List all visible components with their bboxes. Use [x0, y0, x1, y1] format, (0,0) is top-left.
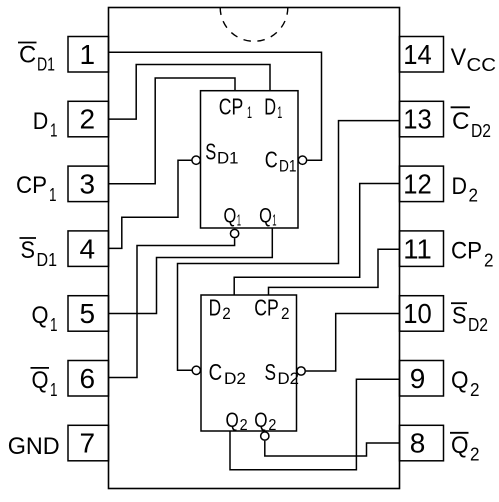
FF1 label Q1 (output) — [259, 204, 276, 229]
pin 5 label Q1 — [32, 302, 58, 335]
svg-text:3: 3 — [80, 169, 96, 200]
svg-text:1: 1 — [50, 315, 58, 335]
svg-text:C: C — [452, 108, 470, 135]
svg-text:1: 1 — [50, 121, 58, 141]
svg-text:Q: Q — [32, 302, 49, 329]
svg-text:1: 1 — [277, 104, 282, 122]
svg-text:2: 2 — [80, 104, 96, 135]
inversion bubble CD1 (FF1 right edge) — [298, 156, 306, 164]
wire pin 2 D1 to FF1 D input — [109, 65, 271, 120]
svg-text:CP: CP — [451, 238, 482, 265]
svg-text:D: D — [264, 94, 276, 120]
pin 1 box — [68, 37, 109, 73]
pin 8 label /Q2 — [450, 432, 480, 465]
FF2 label Q2 (inverted output) — [254, 409, 276, 434]
svg-text:1: 1 — [272, 213, 276, 230]
svg-text:S: S — [21, 237, 36, 264]
svg-text:C: C — [19, 42, 36, 69]
svg-text:8: 8 — [410, 428, 426, 459]
pin 6 label /Q1 — [31, 367, 58, 400]
FF1 label SD1 (set input) — [205, 138, 238, 167]
wire pin 3 CP1 to FF1 CP input — [109, 78, 236, 184]
svg-text:2: 2 — [268, 417, 276, 434]
svg-text:1: 1 — [49, 185, 57, 205]
svg-text:1: 1 — [80, 39, 96, 70]
svg-text:1: 1 — [247, 104, 252, 122]
wire pin 1 /CD1 to FF1 CD1 input — [109, 52, 322, 160]
FF2 label D2 (data input) — [209, 295, 231, 323]
svg-text:2: 2 — [470, 380, 480, 400]
inversion bubble Q2-bar (FF2 bottom edge) — [261, 432, 269, 440]
FF1 label Q1 (inverted output) — [224, 204, 242, 229]
svg-text:D2: D2 — [224, 370, 246, 388]
svg-text:D2: D2 — [278, 370, 300, 388]
svg-text:2: 2 — [470, 445, 480, 465]
pin 6 box — [68, 361, 109, 397]
svg-text:CP: CP — [254, 295, 278, 321]
pin 12 box — [400, 166, 444, 202]
svg-text:2: 2 — [222, 305, 231, 323]
pin 4 label /SD1 — [20, 237, 58, 270]
IC body outline — [109, 8, 400, 489]
svg-text:2: 2 — [281, 305, 290, 323]
pin 8 box — [400, 425, 444, 461]
svg-text:Q: Q — [226, 409, 239, 432]
svg-text:D1: D1 — [37, 54, 55, 74]
inversion bubble SD2 (FF2 right edge) — [297, 367, 305, 375]
wire pin 10 /SD2 to FF2 SD2 input — [306, 314, 400, 372]
pin 4 box — [68, 231, 109, 267]
pin 13 label /CD2 — [451, 107, 491, 141]
flip-flop FF2 body — [201, 295, 297, 431]
wire pin 5 Q1 from FF1 Q output — [109, 228, 273, 314]
pin 10 label /SD2 — [451, 302, 488, 335]
svg-text:C: C — [209, 359, 223, 385]
pin 9 box — [400, 361, 444, 397]
inversion bubble SD1 (FF1 left edge) — [192, 156, 200, 164]
svg-text:GND: GND — [8, 433, 60, 460]
svg-text:9: 9 — [410, 363, 426, 394]
svg-text:5: 5 — [80, 298, 96, 329]
wire pin 8 /Q2 from FF2 inverted output bubble — [265, 441, 400, 456]
svg-text:S: S — [205, 138, 216, 164]
svg-text:D1: D1 — [37, 250, 58, 270]
svg-text:V: V — [451, 44, 467, 71]
svg-text:1: 1 — [50, 380, 58, 400]
FF2 label Q2 (output) — [226, 409, 248, 434]
FF1 label D1 (data input) — [264, 94, 282, 123]
svg-text:Q: Q — [259, 204, 272, 227]
svg-text:S: S — [452, 302, 467, 329]
FF2 label CD2 (clear input) — [209, 359, 246, 388]
svg-text:CC: CC — [467, 55, 497, 75]
svg-text:Q: Q — [451, 367, 469, 394]
svg-text:10: 10 — [403, 298, 432, 329]
svg-text:CP: CP — [219, 94, 244, 120]
FF2 label SD2 (set input) — [265, 359, 300, 388]
svg-text:4: 4 — [80, 233, 96, 264]
svg-text:D2: D2 — [468, 315, 488, 335]
FF1 label CP1 (clock input) — [219, 94, 252, 123]
svg-text:7: 7 — [80, 428, 96, 459]
svg-text:D2: D2 — [471, 121, 491, 141]
svg-text:6: 6 — [80, 363, 96, 394]
wire pin 13 /CD2 to FF2 CD2 input — [178, 121, 400, 371]
pin 2 label D1 — [33, 108, 58, 141]
pin 7 box — [68, 425, 109, 461]
pin 10 box — [400, 296, 444, 332]
svg-text:14: 14 — [403, 39, 432, 70]
wire pin 12 D2 to FF2 D input — [234, 184, 399, 296]
svg-text:12: 12 — [403, 169, 432, 200]
svg-text:D1: D1 — [217, 150, 239, 168]
pin 3 box — [68, 166, 109, 202]
inversion bubble CD2 (FF2 left edge) — [192, 366, 200, 374]
svg-text:Q: Q — [451, 432, 469, 459]
pin 13 box — [400, 101, 444, 137]
pin 14 label VCC — [451, 44, 496, 75]
svg-text:CP: CP — [16, 172, 47, 199]
wire pin 4 /SD1 to FF1 SD1 input — [109, 160, 192, 248]
pin 3 label CP1 — [16, 172, 57, 205]
pin 14 box — [400, 37, 444, 73]
svg-text:2: 2 — [484, 250, 494, 270]
pin 11 label CP2 — [451, 238, 494, 271]
svg-text:1: 1 — [237, 213, 241, 230]
FF1 label CD1 (clear input) — [265, 147, 297, 176]
inversion bubble Q1-bar (FF1 bottom edge) — [230, 229, 238, 237]
pin 5 box — [68, 296, 109, 332]
pin 12 label D2 — [452, 173, 479, 206]
notch (dashed index semicircle) — [220, 8, 288, 42]
svg-text:D1: D1 — [279, 158, 297, 176]
svg-text:D: D — [33, 108, 49, 135]
svg-text:13: 13 — [403, 104, 432, 135]
pin 9 label Q2 — [451, 367, 480, 400]
svg-text:C: C — [265, 147, 278, 173]
pin 1 label /CD1 — [18, 42, 55, 75]
wire pin 11 CP2 to FF2 CP input — [269, 249, 400, 295]
flip-flop FF1 body — [201, 91, 299, 228]
svg-text:2: 2 — [469, 186, 479, 206]
svg-text:D: D — [452, 173, 468, 200]
svg-text:Q: Q — [224, 204, 237, 227]
svg-text:D: D — [209, 295, 222, 321]
pin 11 box — [400, 231, 444, 267]
wire pin 9 Q2 from FF2 Q output — [230, 379, 400, 470]
pin 2 box — [68, 101, 109, 137]
FF2 label CP2 (clock input) — [254, 295, 289, 323]
svg-text:S: S — [265, 359, 277, 385]
svg-text:11: 11 — [403, 233, 432, 264]
svg-text:Q: Q — [32, 367, 49, 394]
svg-text:2: 2 — [240, 417, 248, 434]
wire pin 6 /Q1 from FF1 inverted output bubble — [109, 238, 235, 377]
svg-text:Q: Q — [254, 409, 267, 432]
